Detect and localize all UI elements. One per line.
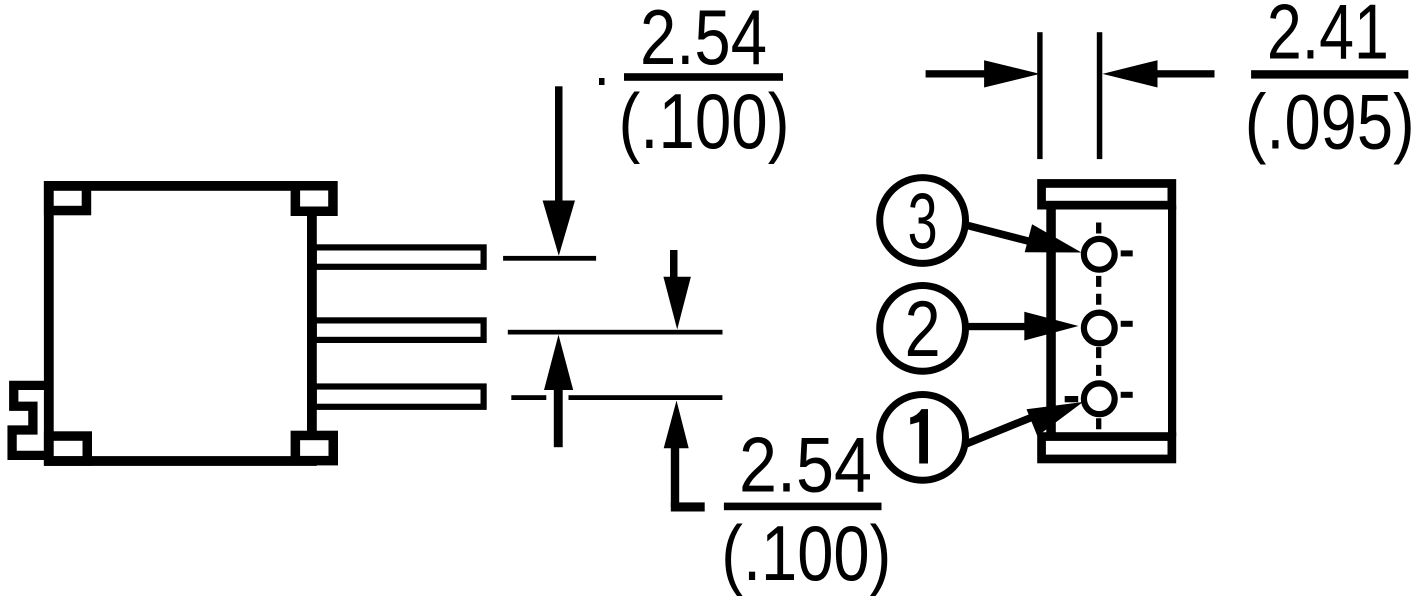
hole for pin 3 xyxy=(1084,239,1115,270)
up arrow to lead 2 line xyxy=(544,335,573,390)
svg-text:2.54: 2.54 xyxy=(739,421,872,509)
dash right of hole 2 xyxy=(1121,321,1133,327)
fraction bar (top right) xyxy=(1251,70,1408,78)
dimension line at lead 2 level xyxy=(508,330,723,335)
svg-text:(.095): (.095) xyxy=(1245,78,1415,166)
dashed centerline through holes xyxy=(1096,223,1101,433)
pin 3 lead (top) xyxy=(314,247,484,266)
fraction bar (upper) xyxy=(624,73,783,81)
svg-text:2: 2 xyxy=(905,284,941,373)
leader line from label 1 xyxy=(966,418,1031,444)
stray dot left of upper fraction bar xyxy=(599,78,605,85)
dash right of hole 3 xyxy=(1121,250,1133,256)
pin 2 lead (middle) xyxy=(314,320,484,340)
side view: right body edge xyxy=(1168,205,1176,436)
corner tab top-right xyxy=(295,186,333,212)
fraction bar (lower) xyxy=(724,503,882,511)
label circle 3 xyxy=(880,178,966,264)
corner tab bottom-left xyxy=(49,436,88,461)
corner tab bottom-right xyxy=(295,435,333,460)
body outline (top view) xyxy=(49,186,312,461)
side view: top cap xyxy=(1042,183,1172,205)
svg-text:(.100): (.100) xyxy=(619,77,790,165)
top dimension: left arrow xyxy=(926,70,987,77)
svg-text:3: 3 xyxy=(908,176,938,265)
wiper clip (S-shaped bracket on left side) xyxy=(12,385,50,455)
leader foot to lower dimension text xyxy=(671,502,705,511)
leader line from label 3 xyxy=(967,225,1030,241)
hole for pin 2 xyxy=(1084,313,1115,344)
dimension line at lead 1 level (left dash) xyxy=(511,395,546,400)
corner tab top-left xyxy=(49,186,87,211)
top dimension: left extension line xyxy=(1037,32,1042,159)
dash left of hole 1 xyxy=(1065,396,1079,402)
label circle 1 xyxy=(880,395,966,481)
up arrow to lead 1 line xyxy=(664,401,689,449)
down arrow to lead 3 line xyxy=(555,86,563,206)
down arrow to lead 2 line xyxy=(670,250,678,280)
svg-text:(.100): (.100) xyxy=(721,509,891,597)
label circle 2 xyxy=(880,286,966,372)
pin 1 lead (bottom) xyxy=(314,387,484,407)
leader line from label 2 xyxy=(966,323,1026,330)
side view: bottom cap xyxy=(1042,437,1172,459)
dimension line at lead 3 level xyxy=(503,256,596,261)
side view: left body edge xyxy=(1046,205,1056,436)
hole for pin 1 xyxy=(1084,383,1115,414)
dimension line at lead 1 level (right segment) xyxy=(569,395,723,400)
top dimension: right extension line xyxy=(1097,32,1103,159)
svg-text:2.41: 2.41 xyxy=(1267,0,1389,76)
dash right of hole 1 xyxy=(1121,392,1133,398)
svg-text:2.54: 2.54 xyxy=(640,0,767,81)
top dimension: right arrow xyxy=(1103,60,1158,87)
